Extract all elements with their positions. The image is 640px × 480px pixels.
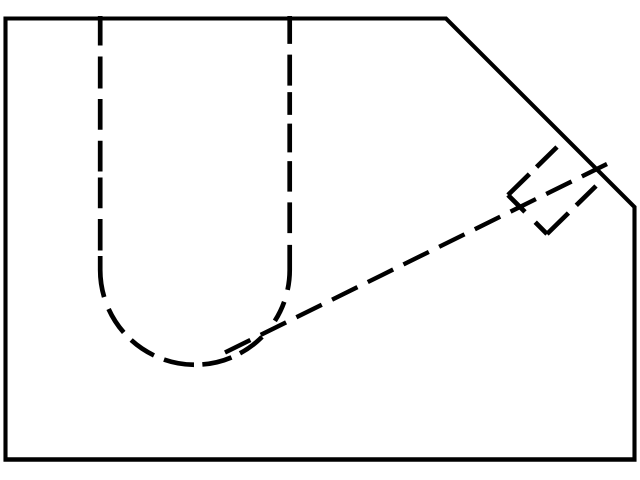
node slot-outline: hidden U-slot (left wall, bottom arc, right wall) — [100, 16, 290, 365]
node axis-line: hidden centerline from slot to chamfer — [225, 164, 607, 353]
wire: bottom edge (slightly thicker) — [4, 457, 637, 462]
node hole-wall-upper: hidden line T to L — [508, 147, 557, 195]
node hole-wall-lower: hidden line B to R — [547, 186, 596, 234]
node hole-bottom: hidden line L to B — [508, 195, 547, 234]
